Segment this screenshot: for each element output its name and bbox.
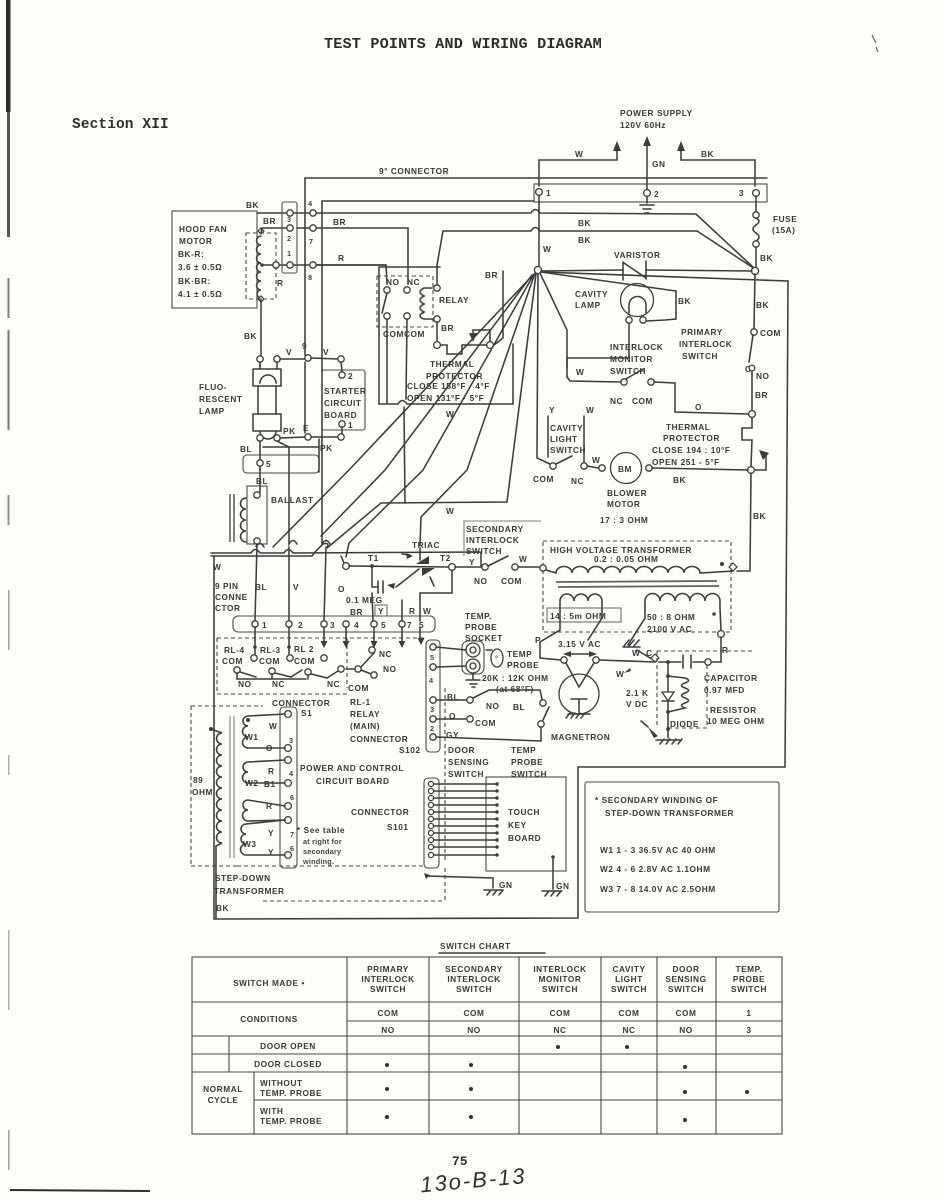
svg-text:CONNECTOR: CONNECTOR xyxy=(350,734,408,744)
svg-text:W: W xyxy=(446,506,454,516)
wire GN to supply with arrow xyxy=(646,143,648,189)
svg-text:CLOSE 194 : 10°F: CLOSE 194 : 10°F xyxy=(652,445,731,455)
svg-text:W: W xyxy=(423,606,431,616)
svg-text:89: 89 xyxy=(193,775,203,785)
wire bundle 2 hub to T1 xyxy=(420,273,535,545)
svg-text:0.97 MFD: 0.97 MFD xyxy=(704,685,745,695)
svg-text:WITH: WITH xyxy=(260,1106,283,1116)
relay contact dashed box xyxy=(377,276,433,327)
svg-text:RELAY: RELAY xyxy=(350,709,380,719)
svg-text:3: 3 xyxy=(746,1025,751,1035)
svg-text:75: 75 xyxy=(452,1154,468,1169)
svg-text:NORMAL: NORMAL xyxy=(203,1084,243,1094)
svg-text:TEST POINTS AND WIRING DIAGRAM: TEST POINTS AND WIRING DIAGRAM xyxy=(324,35,602,53)
svg-text:CTOR: CTOR xyxy=(215,603,241,613)
HV secondary winding 50:8 xyxy=(645,594,721,630)
node T1 circle xyxy=(343,563,350,570)
pin5 wire arrow down xyxy=(373,627,375,641)
svg-text:WITHOUT: WITHOUT xyxy=(260,1078,303,1088)
wire RL1 com feed xyxy=(346,668,355,670)
svg-text:SWITCH: SWITCH xyxy=(668,984,704,994)
S101 connector strip xyxy=(424,778,439,868)
triac Q1 xyxy=(416,556,429,564)
thermal protector TP2 step xyxy=(742,417,752,466)
svg-text:COM: COM xyxy=(501,576,522,586)
svg-text:O: O xyxy=(695,402,702,412)
S1 connector strip xyxy=(280,707,297,868)
svg-text:TRANSFORMER: TRANSFORMER xyxy=(214,886,285,896)
wire Y down to lever xyxy=(547,416,549,457)
svg-text:TEMP. PROBE: TEMP. PROBE xyxy=(260,1116,322,1126)
temp probe socket J1 xyxy=(462,641,484,674)
svg-text:BK: BK xyxy=(753,511,766,521)
svg-text:COM: COM xyxy=(760,328,781,338)
svg-text:NC: NC xyxy=(379,649,392,659)
svg-text:BK: BK xyxy=(678,296,691,306)
HV primary winding xyxy=(540,565,546,571)
svg-text:R: R xyxy=(409,606,416,616)
svg-text:SWITCH CHART: SWITCH CHART xyxy=(440,941,511,951)
wire BK bus lower (relay coil to right hub) xyxy=(443,228,755,270)
wire P filament left down xyxy=(540,609,561,660)
svg-text:W1 1 - 3 36.5V AC 40 OHM: W1 1 - 3 36.5V AC 40 OHM xyxy=(600,845,716,855)
ground GN right xyxy=(542,891,562,896)
svg-text:DOOR: DOOR xyxy=(672,964,699,974)
svg-text:E: E xyxy=(303,423,309,433)
svg-text:3: 3 xyxy=(289,736,293,745)
svg-text:NO: NO xyxy=(467,1025,481,1035)
svg-text:6: 6 xyxy=(290,793,294,802)
svg-text:4: 4 xyxy=(354,620,359,630)
wire BK to supply with arrow xyxy=(681,147,755,186)
wire BR T1 down to pin5 xyxy=(372,593,373,621)
svg-text:O: O xyxy=(266,743,273,753)
wire relay coil to thermal protector xyxy=(436,322,438,341)
svg-text:W: W xyxy=(575,149,583,159)
svg-text:6: 6 xyxy=(290,844,294,853)
HV filament winding 14:5m xyxy=(560,594,602,609)
svg-text:BALLAST: BALLAST xyxy=(271,495,314,505)
wire V lamp to pin9 xyxy=(280,358,305,360)
svg-text:BL: BL xyxy=(256,476,268,486)
svg-text:INTERLOCK: INTERLOCK xyxy=(466,535,519,545)
ground under diode xyxy=(656,739,682,744)
svg-text:R: R xyxy=(266,801,273,811)
wire board to GN ground right xyxy=(552,871,554,889)
svg-text:VARISTOR: VARISTOR xyxy=(614,250,661,260)
svg-text:winding.: winding. xyxy=(302,857,334,866)
svg-text:W: W xyxy=(213,562,221,572)
svg-text:1: 1 xyxy=(348,420,353,430)
varistor RV1 xyxy=(541,270,752,271)
svg-text:CAVITY: CAVITY xyxy=(575,289,608,299)
svg-text:COM: COM xyxy=(348,683,369,693)
svg-text:BR: BR xyxy=(441,323,454,333)
svg-text:CAVITY: CAVITY xyxy=(612,964,645,974)
transformer core xyxy=(230,716,234,858)
svg-text:7: 7 xyxy=(290,830,294,839)
svg-text:S101: S101 xyxy=(387,822,409,832)
svg-text:3: 3 xyxy=(287,215,291,224)
svg-text:NC: NC xyxy=(571,476,584,486)
wire R coil tap row xyxy=(261,265,387,284)
svg-text:MAGNETRON: MAGNETRON xyxy=(551,732,610,742)
svg-text:BR: BR xyxy=(333,217,346,227)
svg-text:2: 2 xyxy=(298,620,303,630)
svg-text:3: 3 xyxy=(739,188,744,198)
svg-text:2.1 K: 2.1 K xyxy=(626,688,649,698)
svg-text:TEMP.: TEMP. xyxy=(465,611,492,621)
svg-text:3.6 ± 0.5Ω: 3.6 ± 0.5Ω xyxy=(178,262,222,272)
svg-text:9: 9 xyxy=(302,341,307,351)
svg-text:CONNECTOR: CONNECTOR xyxy=(272,698,330,708)
svg-text:Y: Y xyxy=(378,606,384,616)
svg-text:SECONDARY: SECONDARY xyxy=(466,524,524,534)
svg-text:PROBE: PROBE xyxy=(465,622,497,632)
hood fan motor winding xyxy=(257,236,262,298)
svg-text:RELAY: RELAY xyxy=(439,295,469,305)
svg-text:PK: PK xyxy=(320,443,333,453)
wire hub down to primary COM xyxy=(754,274,755,328)
svg-text:BL: BL xyxy=(240,444,252,454)
svg-text:V: V xyxy=(286,347,292,357)
svg-text:PROBE: PROBE xyxy=(507,660,539,670)
svg-text:COM: COM xyxy=(632,396,653,406)
svg-text:W: W xyxy=(269,721,277,731)
wire O from monitor COM xyxy=(654,382,748,414)
wire R down to capacitor xyxy=(712,637,721,662)
svg-text:W: W xyxy=(592,455,600,465)
svg-text:INTERLOCK: INTERLOCK xyxy=(533,964,586,974)
row lines xyxy=(192,1002,782,1100)
svg-text:COM: COM xyxy=(533,474,554,484)
column lines xyxy=(347,957,716,1134)
svg-text:BK: BK xyxy=(701,149,714,159)
secondary W2 xyxy=(243,760,285,783)
svg-text:NO: NO xyxy=(238,679,252,689)
node capacitor left xyxy=(651,654,659,662)
svg-text:T1: T1 xyxy=(368,553,379,563)
svg-text:OPEN 131°F · 5°F: OPEN 131°F · 5°F xyxy=(407,393,484,403)
wire hub to cavity light COM xyxy=(537,274,550,464)
terminal 5 box xyxy=(243,455,319,473)
lamp terminals top xyxy=(257,356,263,362)
svg-text:W3: W3 xyxy=(243,839,257,849)
sub cells xyxy=(229,1036,254,1134)
wire Y label box xyxy=(375,605,387,616)
svg-text:BM: BM xyxy=(618,464,632,474)
ground under socket xyxy=(466,673,480,687)
svg-text:R: R xyxy=(722,645,729,655)
node BR junction xyxy=(749,411,756,418)
capacitor C1 xyxy=(659,655,705,668)
thermal protector TP1 xyxy=(434,342,441,349)
svg-text:5: 5 xyxy=(266,459,271,469)
resistor R1 squiggle xyxy=(668,676,689,712)
pin8 wire arrow down xyxy=(419,627,421,638)
svg-text:5: 5 xyxy=(381,620,386,630)
svg-text:5: 5 xyxy=(430,653,434,662)
pin E xyxy=(305,434,311,440)
svg-text:LAMP: LAMP xyxy=(199,406,225,416)
svg-text:COM: COM xyxy=(259,656,280,666)
svg-text:4.1 ± 0.5Ω: 4.1 ± 0.5Ω xyxy=(178,289,222,299)
svg-text:COM: COM xyxy=(377,1008,398,1018)
wire V pin9 to starter xyxy=(311,358,338,359)
svg-text:7: 7 xyxy=(309,237,313,246)
svg-text:BK: BK xyxy=(244,331,257,341)
svg-text:BOARD: BOARD xyxy=(324,410,357,420)
dashed box around cap/diode xyxy=(657,651,755,728)
table frame xyxy=(192,957,782,1134)
HV core lines xyxy=(556,581,719,587)
wire relay coil top up to BK line xyxy=(437,231,443,285)
ground GN left xyxy=(484,890,503,895)
dashed divider xyxy=(444,688,446,860)
wire T1 line to T2 xyxy=(349,566,448,567)
svg-text:S102: S102 xyxy=(399,745,421,755)
svg-text:COM: COM xyxy=(463,1008,484,1018)
connector block left column xyxy=(282,202,297,273)
svg-text:W: W xyxy=(543,244,551,254)
S102 connector strip xyxy=(426,640,440,752)
svg-text:(at 68°F): (at 68°F) xyxy=(496,684,534,694)
svg-text:SWITCH MADE •: SWITCH MADE • xyxy=(233,978,305,988)
svg-text:SWITCH: SWITCH xyxy=(370,984,406,994)
svg-text:O: O xyxy=(338,584,345,594)
wire R pin8 right xyxy=(316,264,386,266)
svg-text:COM: COM xyxy=(383,329,404,339)
wire hub to monitor lever xyxy=(540,273,567,377)
svg-text:NO: NO xyxy=(679,1025,693,1035)
svg-text:V: V xyxy=(323,347,329,357)
svg-text:GN: GN xyxy=(652,159,666,169)
svg-text:SWITCH: SWITCH xyxy=(542,984,578,994)
svg-text:COM: COM xyxy=(549,1008,570,1018)
svg-text:1: 1 xyxy=(546,188,551,198)
svg-text:(15A): (15A) xyxy=(772,225,796,235)
wire BL lamp bottom left down xyxy=(259,441,261,459)
svg-text:0.2 : 0.05 OHM: 0.2 : 0.05 OHM xyxy=(594,554,658,564)
svg-text:NO: NO xyxy=(383,664,397,674)
svg-text:W: W xyxy=(576,367,584,377)
wire bundle2 into pin8 area xyxy=(419,548,421,560)
wire BK junction down to HV transformer xyxy=(737,473,751,571)
svg-text:STARTER: STARTER xyxy=(324,386,366,396)
pin4 wire arrow down xyxy=(345,627,347,641)
cavity light switch S4 xyxy=(550,463,556,469)
svg-text:PROBE: PROBE xyxy=(511,757,543,767)
wire BR coil top to pin3 row xyxy=(261,228,287,233)
wire bundle 5 xyxy=(273,277,531,547)
step-down transformer dashed box xyxy=(191,706,263,866)
pin3 wire arrow down xyxy=(323,627,325,641)
wire BR thermal to hub line xyxy=(494,271,503,345)
wire from T2 down to pins xyxy=(402,570,452,621)
svg-text:SECONDARY: SECONDARY xyxy=(445,964,503,974)
svg-text:STEP-DOWN TRANSFORMER: STEP-DOWN TRANSFORMER xyxy=(605,808,734,818)
svg-text:4: 4 xyxy=(289,769,294,778)
capacitor 0.1MEG snubber xyxy=(372,566,383,593)
long vertical from 9-deg connector line xyxy=(304,178,306,433)
svg-text:MOTOR: MOTOR xyxy=(607,499,640,509)
svg-text:BR: BR xyxy=(350,607,363,617)
svg-text:LIGHT: LIGHT xyxy=(615,974,643,984)
svg-text:RESISTOR: RESISTOR xyxy=(710,705,757,715)
svg-text:R: R xyxy=(338,253,345,263)
terminal 3 xyxy=(753,190,760,197)
svg-text:BK: BK xyxy=(760,253,773,263)
wire BL to ballast xyxy=(259,466,261,492)
box top edge with hops xyxy=(211,550,481,567)
svg-text:CYCLE: CYCLE xyxy=(208,1095,239,1105)
secondary W1 xyxy=(243,714,285,748)
wire to GN ground left xyxy=(426,876,493,888)
svg-text:1: 1 xyxy=(262,620,267,630)
svg-text:COM: COM xyxy=(618,1008,639,1018)
terminal 2 xyxy=(644,190,651,197)
svg-text:TEMP. PROBE: TEMP. PROBE xyxy=(260,1088,322,1098)
ground under terminal 2 xyxy=(640,196,654,213)
svg-text:(MAIN): (MAIN) xyxy=(350,721,380,731)
secondary W2b xyxy=(243,800,285,821)
primary interlock switch S1 xyxy=(751,329,757,335)
svg-text:BK-R:: BK-R: xyxy=(178,249,204,259)
svg-text:COM: COM xyxy=(222,656,243,666)
svg-text:V DC: V DC xyxy=(626,699,648,709)
svg-text:Y: Y xyxy=(268,828,274,838)
svg-text:BK: BK xyxy=(673,475,686,485)
svg-text:°: ° xyxy=(495,654,498,663)
svg-text:20K : 12K OHM: 20K : 12K OHM xyxy=(482,673,549,683)
temp probe TP xyxy=(486,649,492,651)
hood fan motor dashed enclosure xyxy=(246,233,276,299)
wire W down to NC xyxy=(583,416,585,462)
wire COM2 down through box bump to W line xyxy=(404,319,407,503)
wire NC to blower xyxy=(587,466,598,468)
svg-text:SWITCH: SWITCH xyxy=(731,984,767,994)
svg-text:* See table: * See table xyxy=(297,825,345,835)
svg-text:4: 4 xyxy=(308,199,313,208)
terminal strip box xyxy=(534,184,767,202)
svg-text:NC: NC xyxy=(622,1025,635,1035)
svg-text:POWER AND CONTROL: POWER AND CONTROL xyxy=(300,763,404,773)
svg-text:2: 2 xyxy=(654,189,659,199)
svg-text:MONITOR: MONITOR xyxy=(539,974,582,984)
svg-text:TRIAC: TRIAC xyxy=(412,540,440,550)
svg-text:W: W xyxy=(616,669,624,679)
hood fan motor label box xyxy=(172,211,257,308)
interlock monitor switch S3 xyxy=(621,379,627,385)
node T2 circle xyxy=(449,564,456,571)
node R circle on dashed box xyxy=(718,631,725,638)
svg-text:SWITCH: SWITCH xyxy=(466,546,502,556)
svg-text:TEMP: TEMP xyxy=(511,745,536,755)
starter circuit board U2 xyxy=(322,370,365,430)
svg-text:W: W xyxy=(632,648,640,658)
scan mark top right xyxy=(872,35,878,52)
svg-text:SWITCH: SWITCH xyxy=(682,351,718,361)
svg-text:W2 4 - 6 2.8V AC 1.1OHM: W2 4 - 6 2.8V AC 1.1OHM xyxy=(600,864,711,874)
svg-text:secondary: secondary xyxy=(303,847,342,856)
relay K1 coil xyxy=(420,288,432,319)
svg-text:2: 2 xyxy=(430,724,434,733)
svg-text:BOARD: BOARD xyxy=(508,833,541,843)
svg-text:COM: COM xyxy=(475,718,496,728)
svg-text:1: 1 xyxy=(746,1008,751,1018)
svg-text:2: 2 xyxy=(348,371,353,381)
svg-text:4: 4 xyxy=(429,676,434,685)
wire hub to right border xyxy=(541,272,788,281)
svg-text:DOOR CLOSED: DOOR CLOSED xyxy=(254,1059,322,1069)
wire W to supply with arrow xyxy=(539,147,617,186)
svg-text:CAVITY: CAVITY xyxy=(550,423,583,433)
svg-text:NO: NO xyxy=(486,701,500,711)
wire from E-row to 5-box xyxy=(263,439,319,472)
svg-text:T2: T2 xyxy=(440,553,451,563)
svg-text:MONITOR: MONITOR xyxy=(610,354,653,364)
svg-text:W3 7 - 8 14.0V AC 2.5OHM: W3 7 - 8 14.0V AC 2.5OHM xyxy=(600,884,716,894)
svg-text:W1: W1 xyxy=(245,732,259,742)
diode + resistor branch xyxy=(667,662,669,676)
secondary W3 xyxy=(241,820,285,855)
wire COM1 down xyxy=(386,319,388,403)
relay contact NO xyxy=(384,287,390,293)
svg-text:Y: Y xyxy=(549,405,555,415)
svg-text:CONDITIONS: CONDITIONS xyxy=(240,1014,298,1024)
secondary interlock switch S2 xyxy=(482,564,488,570)
svg-text:7: 7 xyxy=(407,620,412,630)
svg-text:SWITCH: SWITCH xyxy=(456,984,492,994)
svg-text:RESCENT: RESCENT xyxy=(199,394,243,404)
wire W hub to step-down transformer xyxy=(211,274,536,556)
svg-text:NO: NO xyxy=(381,1025,395,1035)
wire W terminal1 down to hub xyxy=(538,195,540,266)
wire BR primary NO down xyxy=(751,371,753,410)
svg-text:INTERLOCK: INTERLOCK xyxy=(361,974,414,984)
svg-text:CIRCUIT BOARD: CIRCUIT BOARD xyxy=(316,776,390,786)
svg-text:LAMP: LAMP xyxy=(575,300,601,310)
svg-text:SWITCH: SWITCH xyxy=(448,769,484,779)
svg-text:GN: GN xyxy=(556,881,570,891)
svg-text:BR: BR xyxy=(755,390,768,400)
svg-text:NC: NC xyxy=(553,1025,566,1035)
svg-text:BL: BL xyxy=(513,702,525,712)
svg-text:S1: S1 xyxy=(301,708,312,718)
svg-text:OPEN 251 - 5°F: OPEN 251 - 5°F xyxy=(652,457,720,467)
svg-text:BK: BK xyxy=(756,300,769,310)
fluorescent lamp lower cap xyxy=(253,414,281,431)
pin 9 xyxy=(305,355,311,361)
svg-text:2100 V AC: 2100 V AC xyxy=(647,624,692,634)
svg-text:8: 8 xyxy=(308,273,312,282)
cavity lamp DS1 xyxy=(621,284,654,317)
ribbon wires S101 to board xyxy=(434,784,497,855)
svg-text:Section XII: Section XII xyxy=(72,117,169,133)
svg-text:OHM: OHM xyxy=(192,787,213,797)
wire filament right down xyxy=(588,609,602,640)
dashed board outline top xyxy=(217,638,426,694)
pin7 wire arrow down xyxy=(401,627,403,641)
svg-text:Y: Y xyxy=(469,557,475,567)
svg-text:INTERLOCK: INTERLOCK xyxy=(447,974,500,984)
svg-text:2: 2 xyxy=(287,234,291,243)
wire cavity lamp left down xyxy=(567,323,629,368)
wire bundle 3 hub to box top xyxy=(346,274,534,557)
svg-text:TEMP: TEMP xyxy=(507,649,532,659)
transformer primary coil xyxy=(211,729,222,918)
footer bottom-left rule xyxy=(10,1190,150,1191)
